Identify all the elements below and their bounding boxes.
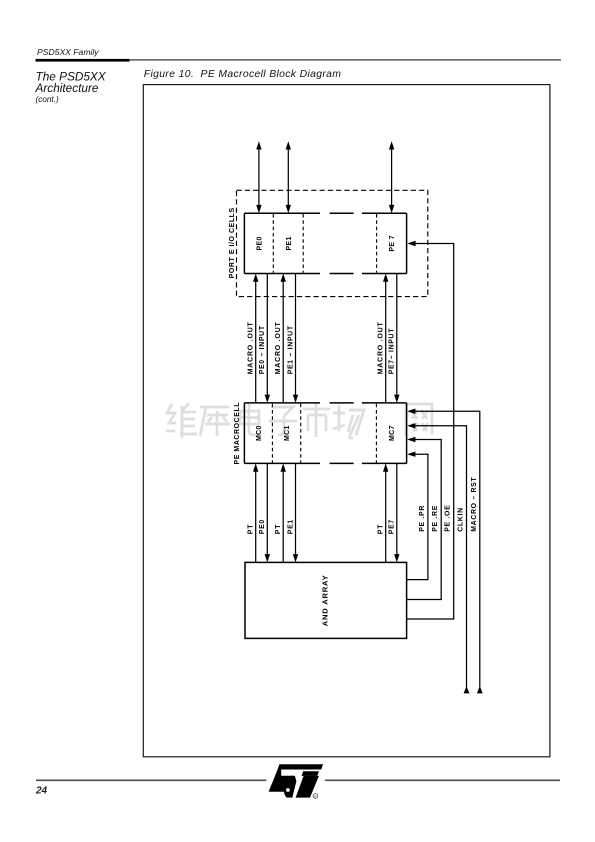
port E I/O cells dashed enclosure [237,190,428,296]
ST logo S hook white notch [286,788,290,792]
svg-text:PE 7: PE 7 [389,235,396,251]
cell separator PE0/PE1 [272,214,274,273]
cell separator .../PE7 [376,214,378,273]
wire MACRO.OUT mc0 [253,274,258,403]
svg-text:(cont.): (cont.) [36,95,59,104]
wire MACRO-RST [407,409,483,694]
bottom rule right segment [325,780,560,782]
header rule thick segment [36,59,130,62]
wire PE.PR feedback [407,452,428,580]
svg-text:PT: PT [378,524,385,535]
wire PE.OE feedback to PE7 cell [407,241,454,619]
svg-text:PE1 – INPUT: PE1 – INPUT [287,325,294,374]
I/O pad wire PE1 (bidirectional) [286,141,291,213]
ST logo T stem [296,776,319,798]
ST logo T crossbar [302,771,319,776]
ST logo registered mark [313,794,318,799]
wire PE.RE feedback [407,437,442,600]
watermark 维库电子市场网 (drawn strokes) [166,403,432,438]
svg-text:MACRO .OUT: MACRO .OUT [275,321,282,374]
svg-text:PE7: PE7 [389,519,396,534]
svg-text:PT: PT [275,524,282,535]
wire CLKIN [407,423,469,693]
svg-text:PSD5XX Family: PSD5XX Family [37,47,99,57]
svg-text:PE .OE: PE .OE [445,505,452,532]
svg-text:Architecture: Architecture [35,81,99,95]
svg-text:MC7: MC7 [389,425,396,441]
side heading The PSD5XX Architecture (cont.) [35,70,107,104]
I/O pad wire PE0 (bidirectional) [256,141,261,213]
port E I/O cells box U1 [244,213,406,273]
wire PE1-INPUT [293,274,298,403]
cell separator MC1/... [300,404,302,463]
svg-text:24: 24 [35,786,48,797]
ST logo S middle stroke and bottom hook [284,776,296,798]
svg-text:PE .PR: PE .PR [419,505,426,532]
header rule thin segment [130,59,562,60]
svg-text:PE .RE: PE .RE [432,505,439,532]
svg-text:CLKIN: CLKIN [458,507,465,532]
svg-text:PE MACROCELL: PE MACROCELL [234,402,241,465]
svg-text:PE1: PE1 [286,236,293,250]
figure border frame [143,85,550,757]
I/O pad wire PE7 (bidirectional) [389,141,394,213]
svg-text:MC1: MC1 [284,425,291,441]
ST logo S left triangle [269,770,293,792]
bottom rule left segment [36,780,266,782]
svg-text:PT: PT [248,524,255,535]
PE macrocell box U2 [244,403,406,464]
svg-text:MC0: MC0 [256,425,263,441]
svg-text:PE7– INPUT: PE7– INPUT [389,328,396,375]
svg-text:PE0: PE0 [257,236,264,250]
wire PT mc0 [253,463,258,562]
wire MACRO.OUT mc7 [383,274,388,403]
svg-text:PORT E I/O CELLS: PORT E I/O CELLS [229,207,236,278]
svg-text:R: R [314,795,317,799]
svg-text:MACRO – RST: MACRO – RST [471,477,478,532]
svg-text:PE0: PE0 [259,519,266,534]
svg-text:MACRO .OUT: MACRO .OUT [248,321,255,374]
svg-text:AND ARRAY: AND ARRAY [320,575,329,627]
svg-text:PE0 – INPUT: PE0 – INPUT [259,325,266,374]
svg-text:Figure 10. PE Macrocell Block: Figure 10. PE Macrocell Block Diagram [144,69,342,80]
wire PE0 to AND array [265,463,270,562]
wire PE7 to AND array [394,463,399,562]
cell separator MC0/MC1 [271,404,273,463]
ST logo [269,764,323,798]
wire PE7-INPUT [394,274,399,403]
wire PT mc7 [383,463,388,562]
wire PT mc1 [281,463,286,562]
svg-text:PE1: PE1 [287,519,294,534]
cell separator PE1/... [302,214,304,273]
AND array box U3 [245,562,407,638]
wire MACRO.OUT mc1 [281,274,286,403]
ST logo top bar [278,764,323,769]
wire PE1 to AND array [293,463,298,562]
svg-text:MACRO .OUT: MACRO .OUT [378,321,385,374]
cell separator .../MC7 [375,404,377,463]
wire PE0-INPUT [265,274,270,403]
